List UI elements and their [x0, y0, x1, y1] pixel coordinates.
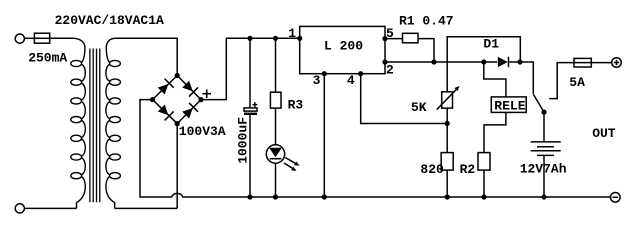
- wire secondary top to bridge: [116, 38, 178, 75]
- junction: R2 on ground rail: [481, 194, 486, 199]
- wire bridge bottom vertical: [176, 124, 178, 209]
- junction: pin 3 on ground rail: [322, 194, 327, 199]
- ground rail from bridge minus with hop: [140, 100, 611, 197]
- svg-text:5K: 5K: [411, 100, 427, 115]
- junction: C1 top on input rail: [247, 36, 252, 41]
- wire relay to R2: [484, 112, 506, 152]
- fuse F1 250mA: [34, 33, 49, 43]
- svg-text:R1 0.47: R1 0.47: [399, 14, 454, 29]
- junction: R1 to pin 2 rail: [431, 59, 436, 64]
- potentiometer 5K: [437, 86, 460, 110]
- wire bridge + to top rail to L200 pin 1: [201, 38, 300, 99]
- junction: bridge AC bottom vertex: [175, 121, 180, 126]
- wire: [24, 37, 34, 39]
- capacitor C1 wire top: [249, 38, 251, 108]
- bridge diode left-top: [157, 79, 174, 96]
- svg-text:1000uF: 1000uF: [236, 117, 251, 164]
- wire 820 to ground: [446, 170, 448, 197]
- junction: bridge plus vertex: [198, 97, 203, 102]
- svg-text:3: 3: [313, 73, 321, 88]
- bridge rectifier diamond: [153, 76, 202, 124]
- capacitor plus sign: [252, 102, 257, 107]
- capacitor C1 wire bottom: [249, 115, 251, 197]
- relay RELE box: [491, 97, 526, 113]
- svg-text:12V7Ah: 12V7Ah: [520, 161, 567, 176]
- svg-text:250mA: 250mA: [28, 51, 67, 66]
- junction: 820 on ground rail: [445, 194, 450, 199]
- svg-text:OUT: OUT: [592, 126, 616, 141]
- junction: LED bottom on ground rail: [273, 194, 278, 199]
- input terminal J1 (top left): [15, 34, 24, 43]
- junction: C1 bottom on ground rail: [247, 194, 252, 199]
- op-amp U1 L200 regulator box: [300, 26, 385, 73]
- wire pin 2 rail to D1 anode: [385, 61, 497, 63]
- svg-text:4: 4: [347, 73, 355, 88]
- junction: R3 top on input rail: [273, 36, 278, 41]
- junction: D1 anode / relay feed: [481, 59, 486, 64]
- wire pot to 820: [446, 108, 448, 153]
- junction: L200 pin 1: [297, 36, 302, 41]
- resistor R3 wire top: [275, 38, 277, 92]
- output terminal +: [612, 58, 622, 68]
- resistor R3: [270, 92, 281, 108]
- svg-text:L 200: L 200: [324, 38, 363, 53]
- junction: battery - on ground rail: [541, 194, 546, 199]
- wire pin 4 to pot bottom: [361, 74, 448, 124]
- svg-text:R3: R3: [288, 97, 304, 112]
- svg-text:RELE: RELE: [494, 98, 525, 113]
- wire pin 3 to ground: [323, 74, 325, 197]
- switch open contact from fuse: [549, 63, 574, 99]
- svg-text:5A: 5A: [569, 75, 585, 90]
- diode D1: [498, 57, 509, 68]
- wire fuse to + terminal: [591, 62, 611, 64]
- svg-text:820: 820: [420, 162, 444, 177]
- wire secondary bottom to bridge bottom: [115, 207, 178, 209]
- resistor 820: [441, 153, 453, 171]
- battery B1 12V7Ah: [531, 112, 561, 197]
- svg-text:1: 1: [288, 26, 296, 41]
- svg-text:220VAC/18VAC1A: 220VAC/18VAC1A: [55, 13, 164, 28]
- wire pin 5 to R1: [385, 38, 403, 40]
- junction: L200 pin 5: [382, 36, 387, 41]
- resistor R2: [478, 153, 490, 171]
- junction: bridge minus vertex: [150, 97, 155, 102]
- junction: switch pivot / battery +: [541, 110, 546, 115]
- wire D1 cathode to switch: [509, 62, 533, 94]
- svg-text:100V3A: 100V3A: [179, 124, 226, 139]
- LED wire bottom: [275, 163, 277, 197]
- junction: D1 cathode node: [517, 59, 522, 64]
- junction: bridge AC top vertex: [175, 73, 180, 78]
- junction: pot wiper / pin 4 node: [445, 121, 450, 126]
- transformer T1 primary winding: [71, 38, 86, 208]
- bridge diode top-right: [181, 80, 198, 97]
- fuse F2 5A: [574, 58, 591, 67]
- LED DL1: [266, 145, 299, 171]
- plus sign at bridge output: [202, 89, 211, 98]
- resistor R1 0.47: [403, 33, 419, 43]
- svg-text:D1: D1: [483, 36, 499, 51]
- wire R3 to LED: [275, 108, 277, 145]
- wire R1 to pin2 rail: [418, 39, 434, 62]
- junction: L200 pin 4: [358, 71, 363, 76]
- output terminal -: [611, 193, 621, 203]
- wire fuse to transformer primary top: [50, 37, 73, 39]
- transformer T1 core: [90, 49, 100, 203]
- wire relay feed from pin2 node: [484, 62, 506, 97]
- capacitor C1 1000uF: [244, 108, 257, 115]
- bridge diode bottom-right: [181, 103, 198, 120]
- wire J2 to primary bottom: [24, 207, 76, 209]
- svg-text:R2: R2: [460, 162, 476, 177]
- transformer T1 secondary winding: [106, 38, 121, 208]
- svg-text:2: 2: [386, 62, 394, 77]
- wire R2 to ground: [483, 170, 485, 197]
- potentiometer 5K riser to top rail: [447, 37, 520, 92]
- bridge diode left-bottom: [157, 104, 174, 121]
- junction: L200 pin 3: [322, 71, 327, 76]
- switch lever: [533, 94, 544, 112]
- junction: L200 pin 2: [382, 59, 387, 64]
- input terminal J2 (bottom left): [15, 204, 24, 213]
